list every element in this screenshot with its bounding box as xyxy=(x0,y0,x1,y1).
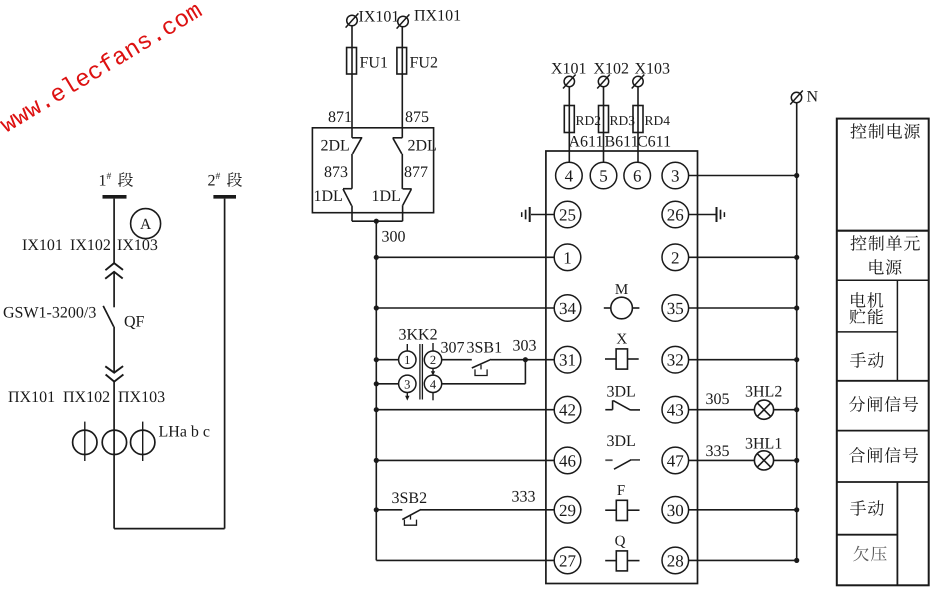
node 300 junction xyxy=(374,219,379,224)
wire X103 to terminal 6 xyxy=(637,87,639,163)
wire bus to 3KK2-1 xyxy=(376,359,398,361)
svg-text:FU1: FU1 xyxy=(360,55,388,72)
svg-text:300: 300 xyxy=(382,229,406,246)
svg-text:B611: B611 xyxy=(605,134,639,151)
svg-text:LHa b c: LHa b c xyxy=(159,424,211,441)
svg-text:2: 2 xyxy=(671,248,680,267)
terminal 31 xyxy=(554,346,581,373)
svg-text:ΠX103: ΠX103 xyxy=(118,389,165,406)
busbar 2 xyxy=(213,195,236,199)
terminal 4 xyxy=(556,162,583,189)
svg-text:ΠX101: ΠX101 xyxy=(414,8,461,25)
motor M xyxy=(604,282,640,319)
label shoudong 2 xyxy=(850,500,884,516)
terminal X103 xyxy=(632,75,645,89)
ground left of 25 xyxy=(522,207,530,222)
fuse RD2 xyxy=(564,106,574,133)
svg-text:873: 873 xyxy=(324,164,348,181)
svg-text:35: 35 xyxy=(667,299,684,318)
terminal 1 xyxy=(554,244,581,271)
svg-text:#: # xyxy=(107,172,112,182)
svg-text:3: 3 xyxy=(404,377,410,391)
legend divider 5 xyxy=(837,430,929,432)
node 303 junction xyxy=(523,357,528,362)
wire row 42 xyxy=(376,409,554,411)
wire 35 to N xyxy=(689,305,800,310)
terminal 25 xyxy=(554,201,581,228)
wire bus to 3KK2-3 xyxy=(376,383,398,385)
svg-text:42: 42 xyxy=(559,401,576,420)
wire lamp to N row47 xyxy=(774,458,800,463)
CT LHa circle xyxy=(73,422,97,461)
terminal 2 xyxy=(662,244,689,271)
wire row 46 xyxy=(376,459,554,461)
terminal X102 xyxy=(597,75,610,89)
node 1#duan bus label xyxy=(99,172,112,190)
svg-text:1: 1 xyxy=(563,248,572,267)
svg-text:X101: X101 xyxy=(551,61,587,78)
wire 1DL left to join xyxy=(351,206,353,222)
wire chevrons to QF xyxy=(113,272,115,308)
lamp 3HL1 xyxy=(754,451,773,470)
terminal 35 xyxy=(662,295,689,322)
contact 3DL NO xyxy=(605,460,640,470)
wire row 1 xyxy=(376,256,554,258)
coil X xyxy=(605,332,639,370)
label kongzhidanyuan xyxy=(850,235,919,251)
wire X102 to terminal 5 xyxy=(603,87,605,163)
junction on bus row 29 xyxy=(374,507,379,512)
pushbutton 3SB2 xyxy=(402,509,421,525)
label kongzhidianyuan xyxy=(850,123,919,139)
svg-text:27: 27 xyxy=(559,551,577,570)
3KK2 tick below 4 xyxy=(432,393,434,401)
svg-text:303: 303 xyxy=(513,338,537,355)
svg-text:875: 875 xyxy=(405,109,429,126)
terminal 28 xyxy=(662,547,689,574)
svg-text:1: 1 xyxy=(404,353,410,367)
legend divider 1 xyxy=(837,230,929,232)
svg-text:3DL: 3DL xyxy=(607,433,636,450)
wire 3SB1 to node 303 xyxy=(491,359,526,361)
svg-text:X: X xyxy=(616,332,627,348)
svg-text:RD2: RD2 xyxy=(576,113,602,128)
switch 3KK2 contact 1 xyxy=(399,351,416,368)
coil F xyxy=(605,483,639,521)
pushbutton 3SB1 xyxy=(472,359,491,375)
wire bus1 to CT chevrons xyxy=(113,199,115,264)
terminal IX101 xyxy=(346,13,359,27)
legend table frame xyxy=(837,119,929,586)
wire 47 to lamp xyxy=(689,459,755,461)
wire 877 segment xyxy=(401,154,403,189)
contact 2DL left xyxy=(352,128,362,154)
switch 3KK2 contact 4 xyxy=(424,375,441,392)
svg-text:2: 2 xyxy=(208,173,216,190)
contact 2DL right xyxy=(393,128,403,154)
svg-text:31: 31 xyxy=(559,351,576,370)
fuse RD4 xyxy=(633,106,643,133)
3KK2 tick above 2 xyxy=(432,343,434,351)
svg-text:3KK2: 3KK2 xyxy=(399,327,438,344)
wire IX101 to box xyxy=(351,26,353,128)
ammeter A xyxy=(131,209,161,239)
svg-text:3SB2: 3SB2 xyxy=(392,490,428,507)
svg-text:25: 25 xyxy=(559,206,576,225)
DL contact box xyxy=(312,128,433,213)
wire 3KK2-2 to 3SB1 xyxy=(442,359,472,361)
svg-text:2: 2 xyxy=(430,353,436,367)
svg-text:4: 4 xyxy=(565,167,574,186)
svg-text:335: 335 xyxy=(706,443,730,460)
label dianyuan xyxy=(869,259,901,275)
terminal N xyxy=(790,91,803,105)
wire 1DL right to join xyxy=(402,205,404,221)
junction on bus row 1 xyxy=(374,255,379,260)
svg-text:28: 28 xyxy=(667,551,684,570)
drawout contact chevrons up xyxy=(105,263,123,279)
terminal X101 xyxy=(563,75,576,89)
svg-text:IX102: IX102 xyxy=(70,237,111,254)
legend vertical divider lower xyxy=(896,482,898,585)
svg-text:307: 307 xyxy=(441,340,465,357)
wire 32 to N xyxy=(689,357,800,362)
svg-text:29: 29 xyxy=(559,501,576,520)
3KK2 coupling bars xyxy=(420,344,423,400)
wire 3 to N xyxy=(689,173,800,178)
label fenzha xyxy=(849,396,918,412)
control unit block U1 xyxy=(546,151,698,584)
svg-text:3SB1: 3SB1 xyxy=(467,340,503,357)
coil Q xyxy=(605,534,639,571)
label hezha xyxy=(849,447,918,463)
ground right of 26 xyxy=(717,207,725,222)
wire QF to lower chevrons xyxy=(113,327,115,373)
wire control bus 300 vertical xyxy=(375,221,377,560)
wire X101 to terminal 4 xyxy=(568,87,570,163)
wire 3SB2 to terminal 29 xyxy=(420,509,554,511)
svg-text:46: 46 xyxy=(559,451,576,470)
legend vertical divider upper xyxy=(896,280,898,381)
svg-text:Q: Q xyxy=(615,534,626,550)
svg-text:3: 3 xyxy=(671,167,680,186)
terminal 34 xyxy=(554,295,581,322)
terminal 29 xyxy=(554,497,581,524)
terminal 27 xyxy=(554,547,581,574)
junction on bus row 42 xyxy=(374,407,379,412)
svg-text:4: 4 xyxy=(430,377,437,391)
terminal 43 xyxy=(662,396,689,423)
svg-text:30: 30 xyxy=(667,501,684,520)
svg-text:N: N xyxy=(807,89,819,106)
svg-text:A611: A611 xyxy=(569,134,604,151)
contact 1DL right xyxy=(403,189,412,205)
wire 26 to ground xyxy=(689,214,716,216)
label qianya xyxy=(853,546,886,562)
svg-text:1DL: 1DL xyxy=(314,188,343,205)
svg-text:QF: QF xyxy=(124,314,145,331)
wire 25 to ground xyxy=(531,214,554,216)
terminal 42 xyxy=(554,396,581,423)
svg-text:2DL: 2DL xyxy=(408,138,437,155)
svg-text:43: 43 xyxy=(667,401,684,420)
svg-text:IX101: IX101 xyxy=(359,9,400,26)
CT LHc circle xyxy=(131,422,155,461)
terminal 46 xyxy=(554,447,581,474)
wire 28 to N xyxy=(689,558,800,563)
wire bottom horizontal xyxy=(114,528,225,530)
svg-text:871: 871 xyxy=(328,109,352,126)
legend divider 6 xyxy=(837,481,929,483)
wire to 3KK2-4 xyxy=(442,383,526,385)
svg-text:3DL: 3DL xyxy=(607,384,636,401)
svg-text:34: 34 xyxy=(559,299,577,318)
wire row 27 xyxy=(376,559,554,561)
terminal 5 xyxy=(590,162,617,189)
3KK2 arrow 2 to 4 xyxy=(431,369,435,376)
svg-text:6: 6 xyxy=(633,167,642,186)
terminal 32 xyxy=(662,346,689,373)
3KK2 tick above 1 xyxy=(406,344,408,351)
breaker QF blade xyxy=(103,306,114,327)
svg-text:3HL1: 3HL1 xyxy=(745,436,782,453)
legend divider 4 xyxy=(837,380,929,382)
svg-text:1: 1 xyxy=(99,173,107,190)
contact 3DL NC xyxy=(605,400,640,410)
svg-text:2DL: 2DL xyxy=(321,138,350,155)
wire bus to 3SB2 xyxy=(376,509,402,511)
terminal IIX101 xyxy=(397,14,410,28)
drawout contact chevrons down xyxy=(105,366,123,382)
CT labels IX101 IX102 IX103 xyxy=(22,237,158,254)
label dianji xyxy=(851,292,883,308)
svg-text:IX101: IX101 xyxy=(22,237,63,254)
svg-text:RD3: RD3 xyxy=(610,113,636,128)
svg-text:3HL2: 3HL2 xyxy=(745,384,782,401)
busbar 1 xyxy=(103,195,127,199)
wire 2 to N xyxy=(689,255,800,260)
svg-text:47: 47 xyxy=(667,451,685,470)
fuse FU1 xyxy=(347,48,357,75)
legend divider 2 xyxy=(837,279,929,281)
svg-text:M: M xyxy=(615,282,628,298)
svg-text:32: 32 xyxy=(667,351,684,370)
wire join horizontal xyxy=(352,220,403,222)
wire 303 down xyxy=(524,360,526,384)
node 2#duan bus label xyxy=(208,172,221,190)
lamp 3HL2 xyxy=(754,400,773,419)
svg-text:F: F xyxy=(617,483,625,499)
svg-text:X103: X103 xyxy=(635,61,671,78)
svg-text:1DL: 1DL xyxy=(372,188,401,205)
svg-text:RD4: RD4 xyxy=(645,113,671,128)
3KK2 arrow below 3 xyxy=(405,393,409,401)
svg-text:305: 305 xyxy=(706,391,730,408)
wire 2#duan riser xyxy=(224,199,226,529)
junction on bus row 46 xyxy=(374,458,379,463)
svg-text:ΠX101: ΠX101 xyxy=(8,389,55,406)
wire 303 to terminal 31 xyxy=(525,359,554,361)
terminal 6 xyxy=(624,162,651,189)
CT labels IIX101 IIX102 IIX103 xyxy=(8,389,165,406)
svg-text:26: 26 xyxy=(667,206,684,225)
CT LHb circle xyxy=(102,430,126,454)
svg-text:A: A xyxy=(140,216,152,233)
svg-text:X102: X102 xyxy=(594,61,630,78)
watermark www.elecfans.com xyxy=(0,0,208,140)
junction on bus row 31 xyxy=(374,357,379,362)
svg-text:ΠX102: ΠX102 xyxy=(63,389,110,406)
svg-text:5: 5 xyxy=(599,167,608,186)
label shoudong 1 xyxy=(850,352,884,368)
fuse FU2 xyxy=(397,48,407,75)
wire 873 segment xyxy=(351,154,353,189)
switch 3KK2 contact 3 xyxy=(399,375,416,392)
junction on bus row kk xyxy=(374,381,379,386)
svg-text:877: 877 xyxy=(404,164,428,181)
switch 3KK2 contact 2 xyxy=(424,351,441,368)
terminal 30 xyxy=(662,497,689,524)
terminal 3 xyxy=(662,162,689,189)
svg-text:GSW1-3200/3: GSW1-3200/3 xyxy=(3,305,96,322)
svg-text:C611: C611 xyxy=(637,134,671,151)
terminal 26 xyxy=(662,201,689,228)
wire N vertical xyxy=(796,103,798,561)
legend divider 7 partial xyxy=(837,534,898,536)
wire 43 to lamp xyxy=(689,409,755,411)
junction on bus row 34 xyxy=(374,305,379,310)
svg-text:333: 333 xyxy=(512,489,536,506)
wire row 34 xyxy=(376,307,554,309)
svg-text:IX103: IX103 xyxy=(117,237,158,254)
fuse RD3 xyxy=(599,106,609,133)
svg-text:FU2: FU2 xyxy=(410,55,438,72)
wire IIX101 to box xyxy=(401,27,403,128)
contact 1DL left xyxy=(343,189,352,206)
wire chevrons to CTs and bottom xyxy=(113,382,115,529)
terminal 47 xyxy=(662,447,689,474)
wire 30 to N xyxy=(689,507,800,512)
svg-text:#: # xyxy=(216,172,221,182)
wire lamp to N row43 xyxy=(774,407,800,412)
label zhuneng xyxy=(849,309,882,325)
legend divider 3 partial xyxy=(837,331,898,333)
